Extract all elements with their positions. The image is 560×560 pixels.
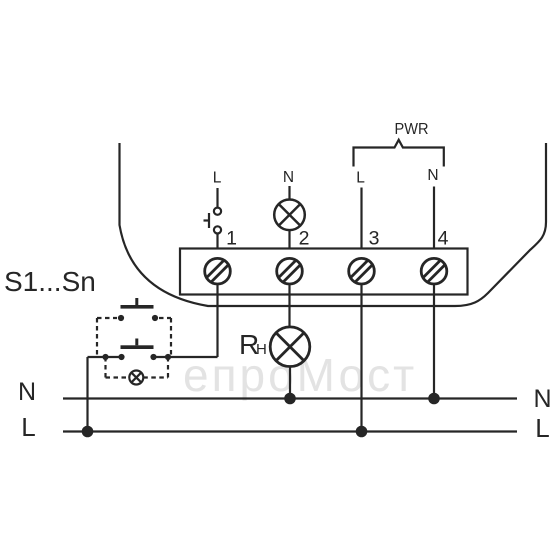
svg-text:H: H	[256, 341, 267, 358]
svg-text:L: L	[21, 412, 35, 442]
wire: push-button row right segment	[153, 356, 218, 358]
svg-text:N: N	[18, 378, 36, 406]
wire: terminal 4 down to N bus	[433, 284, 435, 399]
indicator lamp (above terminal 2)	[274, 200, 305, 231]
svg-text:4: 4	[438, 227, 449, 249]
junction: lamp branch right	[165, 354, 171, 360]
button indicator lamp	[129, 371, 143, 385]
wire: N to indicator lamp	[288, 186, 290, 200]
wire: N supply to terminal 4	[433, 187, 435, 249]
junction: terminal 3 wire on L bus	[356, 426, 368, 438]
wire: lamp RH to N bus	[289, 367, 291, 399]
svg-text:2: 2	[299, 227, 310, 249]
push button S1 (top)	[118, 298, 158, 321]
svg-text:PWR: PWR	[395, 121, 429, 138]
svg-text:L: L	[535, 413, 549, 443]
label RH	[239, 329, 267, 360]
svg-text:N: N	[427, 167, 438, 184]
PWR bracket	[354, 140, 444, 167]
wire: push-button row left segment	[88, 356, 123, 358]
wire: L to switch contact	[216, 188, 218, 207]
svg-text:L: L	[356, 169, 365, 186]
switch contact S (above terminal 1)	[204, 208, 222, 234]
terminal 2	[277, 258, 303, 284]
lamp RH	[270, 327, 310, 367]
junction: lamp branch left	[102, 354, 108, 360]
svg-text:N: N	[283, 169, 294, 186]
svg-text:N: N	[533, 385, 551, 413]
wire: switch contact to terminal 1	[216, 234, 218, 248]
terminal 4	[421, 258, 447, 284]
wire (dashed): lamp branch	[106, 357, 169, 378]
device outline	[120, 143, 547, 306]
svg-text:3: 3	[369, 227, 380, 249]
dashed enclosure S1...Sn	[97, 318, 171, 356]
wire: L bus riser to push-buttons	[86, 357, 88, 432]
L bus	[63, 430, 517, 432]
push button Sn (bottom)	[118, 339, 156, 361]
wire: terminal 1 down to push-button row	[216, 284, 218, 357]
svg-text:1: 1	[226, 227, 237, 249]
wire: terminal 3 down to L bus	[360, 284, 362, 432]
svg-text:S1...Sn: S1...Sn	[4, 266, 96, 297]
wire: L supply to terminal 3	[360, 188, 362, 249]
junction: lamp RH on N bus	[284, 393, 296, 405]
wire: terminal 2 down to lamp RH	[288, 284, 290, 327]
svg-text:L: L	[213, 170, 222, 187]
junction: push-button feed on L bus	[82, 426, 94, 438]
terminal 1	[205, 258, 231, 284]
junction: terminal 4 wire on N bus	[428, 393, 440, 405]
wire: indicator lamp to terminal 2	[288, 230, 290, 248]
terminal block	[180, 249, 468, 295]
N bus	[63, 397, 517, 399]
terminal 3	[349, 258, 375, 284]
